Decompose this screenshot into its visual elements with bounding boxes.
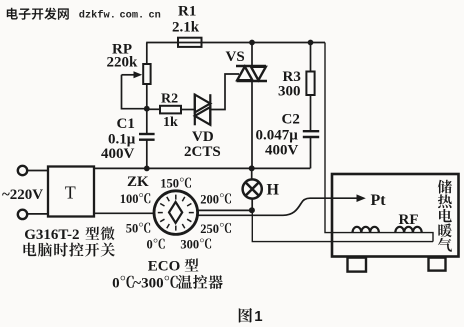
wire terminal bottom to T <box>27 213 48 215</box>
label 0C <box>147 238 165 252</box>
svg-text:VS: VS <box>226 49 245 65</box>
wire T bottom to thermostat <box>95 212 155 214</box>
wire dial to node D <box>198 209 252 211</box>
node D lamp bottom <box>249 207 255 213</box>
svg-text:dzkfw.: dzkfw. <box>79 9 116 21</box>
svg-text:300: 300 <box>180 237 199 251</box>
resistor R3 <box>278 43 315 100</box>
diac VD 2CTS <box>184 94 221 160</box>
svg-text:Pt: Pt <box>371 192 387 209</box>
resistor R2 <box>160 92 181 130</box>
node A junction <box>144 106 150 112</box>
svg-text:0: 0 <box>112 276 120 292</box>
svg-text:RF: RF <box>399 212 419 228</box>
svg-text:T: T <box>65 183 76 203</box>
wire R2 to VD <box>181 109 194 111</box>
thermostat dial <box>154 191 198 235</box>
svg-text:250: 250 <box>200 222 219 236</box>
wire RP wiper down to node A <box>122 75 147 109</box>
svg-text:2CTS: 2CTS <box>184 144 221 160</box>
capacitor C2 <box>256 112 320 159</box>
label 100C <box>120 192 151 206</box>
label 300C <box>180 237 211 251</box>
wire terminal top to T <box>27 170 48 172</box>
terminal bottom <box>18 210 27 219</box>
label 50C <box>126 222 150 236</box>
svg-text:VD: VD <box>192 129 214 145</box>
svg-text:ZK: ZK <box>127 174 149 190</box>
svg-text:~300: ~300 <box>133 276 163 292</box>
svg-text:2.1k: 2.1k <box>172 20 200 36</box>
svg-text:400V: 400V <box>101 146 135 162</box>
label 150C <box>160 177 191 191</box>
svg-text:ECO: ECO <box>148 259 181 275</box>
label heater name <box>438 180 452 252</box>
svg-text:0: 0 <box>147 238 153 252</box>
svg-text:300: 300 <box>278 84 301 100</box>
node top R3 <box>308 40 314 46</box>
svg-text:H: H <box>267 182 280 199</box>
transformer T <box>48 167 94 217</box>
node B C1 bottom <box>144 166 150 172</box>
svg-text:C2: C2 <box>282 112 300 128</box>
wire C2 to control rail <box>310 137 312 168</box>
resistor R1 <box>172 4 202 47</box>
wire load branch right <box>325 43 433 242</box>
wire C1 to node B <box>146 140 148 169</box>
wire left branch vertical <box>146 43 148 65</box>
svg-text:com.: com. <box>120 9 145 21</box>
svg-text:220k: 220k <box>107 55 139 71</box>
label temp controller range <box>112 275 223 292</box>
wire node A to C1 <box>146 109 148 134</box>
label 200C <box>200 192 231 206</box>
heating element RF <box>353 212 422 233</box>
heater box <box>332 174 459 272</box>
wire dial to Pt probe <box>198 192 387 215</box>
lamp H <box>243 168 280 210</box>
svg-text:400V: 400V <box>265 143 299 159</box>
capacitor C1 <box>101 116 155 162</box>
watermark <box>7 8 161 22</box>
svg-text:1: 1 <box>254 308 262 325</box>
wire node A to R2 <box>147 108 160 110</box>
wire RP bottom to node A <box>146 84 148 109</box>
triac VS <box>226 43 268 169</box>
svg-text:G316T-2: G316T-2 <box>24 227 79 243</box>
label ECO type <box>148 258 199 274</box>
svg-text:200: 200 <box>200 192 219 206</box>
wire control rail <box>95 167 311 169</box>
label figure 1 <box>239 308 263 325</box>
svg-text:R1: R1 <box>178 4 196 20</box>
label timer switch <box>23 243 114 257</box>
node top triac <box>249 40 255 46</box>
wire R3 to C2 <box>310 95 312 131</box>
svg-text:~220V: ~220V <box>2 187 43 203</box>
label G316T-2 model <box>24 227 114 243</box>
svg-text:C1: C1 <box>117 116 135 132</box>
wire node D return from RF <box>252 210 433 241</box>
svg-text:100: 100 <box>120 192 139 206</box>
svg-text:R2: R2 <box>161 92 178 107</box>
potentiometer RP <box>107 42 151 85</box>
wire top rail <box>146 42 325 44</box>
wire VD to triac gate <box>210 74 239 110</box>
svg-text:150: 150 <box>160 177 179 191</box>
svg-text:0.047μ: 0.047μ <box>256 128 299 144</box>
svg-text:50: 50 <box>126 222 139 236</box>
label 250C <box>200 222 231 236</box>
svg-text:cn: cn <box>149 9 161 21</box>
svg-text:1k: 1k <box>163 115 178 130</box>
node C triac bottom <box>249 165 255 171</box>
terminal top <box>18 166 27 175</box>
